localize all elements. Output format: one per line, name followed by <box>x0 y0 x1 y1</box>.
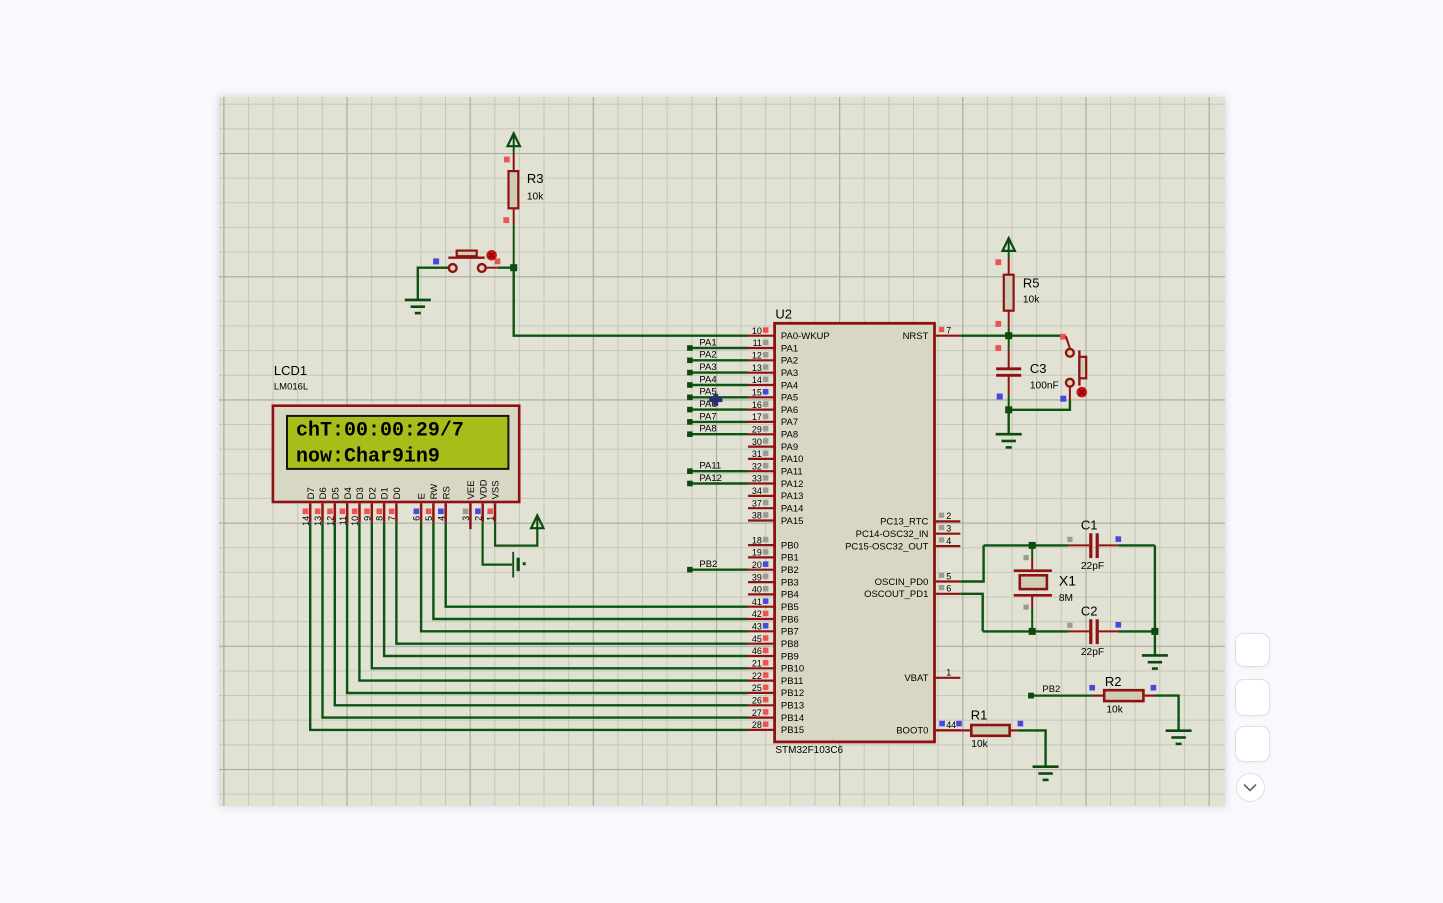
svg-text:C1: C1 <box>1080 517 1097 532</box>
resistor R5 <box>1003 274 1039 310</box>
U2 pin 20 (PB2) <box>748 559 799 575</box>
svg-text:40: 40 <box>751 584 761 594</box>
C3 bottom node junction <box>1005 406 1012 413</box>
U2 pin 11 (PA1) <box>748 338 798 354</box>
svg-text:PA0-WKUP: PA0-WKUP <box>780 331 829 342</box>
crystal top rail wire <box>983 544 1068 546</box>
svg-text:10k: 10k <box>1106 704 1123 715</box>
svg-text:11: 11 <box>752 338 761 348</box>
toolbar button 2 <box>1235 679 1270 716</box>
svg-text:VBAT: VBAT <box>904 673 928 684</box>
svg-text:1: 1 <box>485 515 495 520</box>
svg-text:PA7: PA7 <box>699 411 716 422</box>
U2 pin 13 (PA3) <box>748 362 798 378</box>
svg-text:D3: D3 <box>355 487 366 499</box>
svg-text:OSCOUT_PD1: OSCOUT_PD1 <box>864 589 928 600</box>
svg-text:33: 33 <box>751 473 761 483</box>
resistor R1 <box>970 707 1022 749</box>
svg-text:PA1: PA1 <box>699 337 716 348</box>
svg-text:D2: D2 <box>367 487 378 499</box>
svg-text:PA2: PA2 <box>699 349 716 360</box>
U2 pin 28 (PB15) <box>748 720 804 736</box>
ground G4 (R2) <box>1165 730 1191 743</box>
LCD1 pin 7 (D0) <box>387 487 403 522</box>
button SW2 indicator LED <box>1076 386 1087 397</box>
U2 pin 12 (PA2) <box>748 350 798 366</box>
svg-text:PB14: PB14 <box>780 712 803 723</box>
U2 pin 4 (PC15-OSC32_OUT) <box>845 535 960 551</box>
svg-text:PA3: PA3 <box>780 368 797 379</box>
svg-text:34: 34 <box>751 486 761 496</box>
collapse chevron button <box>1236 773 1265 802</box>
svg-text:RW: RW <box>429 483 440 499</box>
capacitor C3 <box>995 335 1058 409</box>
U2 pin 37 (PA14) <box>748 498 803 514</box>
svg-text:6: 6 <box>411 515 421 520</box>
svg-text:OSCIN_PD0: OSCIN_PD0 <box>874 576 928 587</box>
svg-text:37: 37 <box>751 498 761 508</box>
wire net PA2 <box>687 349 748 362</box>
svg-text:PA12: PA12 <box>699 472 722 483</box>
svg-text:42: 42 <box>751 609 761 619</box>
svg-text:19: 19 <box>751 547 761 557</box>
U2 pin 26 (PB13) <box>748 695 804 711</box>
U2 pin 31 (PA10) <box>748 449 803 465</box>
wire LCD D7 to U2 PB15 <box>310 522 748 730</box>
toolbar button 1 <box>1235 633 1270 667</box>
svg-text:9: 9 <box>362 515 372 520</box>
svg-text:29: 29 <box>751 424 761 434</box>
svg-text:22pF: 22pF <box>1080 560 1103 571</box>
svg-text:PB12: PB12 <box>780 688 803 699</box>
svg-text:E: E <box>416 493 427 499</box>
svg-text:PC15-OSC32_OUT: PC15-OSC32_OUT <box>845 541 928 552</box>
crystal X1 <box>1013 545 1076 631</box>
svg-text:PB5: PB5 <box>780 602 798 613</box>
svg-text:45: 45 <box>751 633 761 643</box>
wire LCD D0 to U2 PB8 <box>396 522 748 643</box>
svg-text:3: 3 <box>461 515 471 520</box>
capacitor C1 <box>1067 517 1121 571</box>
push button SW2 <box>1065 336 1085 386</box>
svg-text:5: 5 <box>946 571 951 581</box>
svg-text:30: 30 <box>751 436 761 446</box>
svg-text:27: 27 <box>751 707 761 717</box>
svg-text:PA11: PA11 <box>780 466 802 477</box>
LCD1 pin 12 (D5) <box>325 487 341 526</box>
toolbar button 3 <box>1235 726 1270 762</box>
svg-text:38: 38 <box>751 510 761 520</box>
ground G3 (crystal) <box>1141 655 1167 668</box>
push button SW1 <box>433 250 500 271</box>
svg-text:22: 22 <box>751 670 761 680</box>
wire net PA3 <box>687 362 748 375</box>
svg-text:BOOT0: BOOT0 <box>896 725 928 736</box>
svg-text:17: 17 <box>751 412 761 422</box>
right rail junction <box>1151 627 1158 634</box>
svg-text:R3: R3 <box>526 170 543 185</box>
svg-text:7: 7 <box>387 515 397 520</box>
svg-text:PA10: PA10 <box>780 454 803 465</box>
power flag VCC (above R5) <box>1002 238 1014 251</box>
svg-text:U2: U2 <box>775 306 792 321</box>
svg-text:PA6: PA6 <box>780 404 797 415</box>
wire U2 NRST to SW2 <box>960 333 1066 339</box>
svg-text:PA4: PA4 <box>780 380 797 391</box>
wire net PA12 <box>687 472 748 485</box>
ground G2 (C3) <box>995 434 1021 447</box>
svg-text:VEE: VEE <box>466 480 477 499</box>
IC U2 reference label <box>775 306 792 321</box>
svg-text:8M: 8M <box>1058 592 1072 603</box>
svg-text:43: 43 <box>751 621 761 631</box>
wire net PA5 <box>687 386 748 399</box>
svg-text:PA3: PA3 <box>699 362 716 373</box>
svg-text:100nF: 100nF <box>1029 380 1058 391</box>
svg-text:12: 12 <box>751 350 761 360</box>
svg-text:41: 41 <box>751 596 761 606</box>
wire net PA1 <box>687 337 748 350</box>
svg-text:PB6: PB6 <box>780 614 798 625</box>
U2 value label STM32F103C6 <box>775 745 843 756</box>
wire net PB2 <box>687 559 748 572</box>
svg-text:PA13: PA13 <box>780 491 803 502</box>
svg-text:PB1: PB1 <box>780 552 798 563</box>
U2 pin 40 (PB4) <box>748 584 799 600</box>
LCD screen <box>287 415 508 468</box>
LCD1 pin 13 (D6) <box>313 487 329 526</box>
U2 pin 29 (PA8) <box>748 424 798 440</box>
svg-text:VSS: VSS <box>490 480 501 499</box>
U2 pin 10 (PA0-WKUP) <box>748 325 830 341</box>
U2 pin 5 (OSCIN_PD0) <box>874 571 960 587</box>
svg-text:PC13_RTC: PC13_RTC <box>880 516 928 527</box>
wire LCD D4 to U2 PB12 <box>347 522 748 693</box>
svg-text:21: 21 <box>751 658 761 668</box>
U2 pin 25 (PB12) <box>748 683 804 699</box>
U2 pin 32 (PA11) <box>748 461 803 477</box>
svg-text:14: 14 <box>751 375 761 385</box>
svg-text:R2: R2 <box>1104 673 1121 688</box>
wire LCD D6 to U2 PB14 <box>322 522 747 717</box>
U2 pin 2 (PC13_RTC) <box>880 511 960 527</box>
resistor R3 <box>508 170 544 207</box>
LCD1 reference label <box>273 362 306 377</box>
U2 pin 38 (PA15) <box>748 510 803 526</box>
svg-text:X1: X1 <box>1058 572 1075 588</box>
svg-text:C2: C2 <box>1080 603 1097 618</box>
svg-text:6: 6 <box>946 583 951 593</box>
U2 pin 22 (PB11) <box>748 670 803 686</box>
svg-text:PA5: PA5 <box>780 392 797 403</box>
svg-text:PB7: PB7 <box>780 626 798 637</box>
svg-text:15: 15 <box>751 387 761 397</box>
capacitor C2 <box>1067 603 1121 657</box>
svg-text:39: 39 <box>751 572 761 582</box>
U2 pin 42 (PB6) <box>748 609 799 625</box>
crystal top junction <box>1028 541 1035 548</box>
LCD text line 2 <box>296 445 440 468</box>
LCD1 value label LM016L <box>273 381 307 392</box>
svg-text:PB2: PB2 <box>780 565 798 576</box>
svg-text:D4: D4 <box>342 487 353 499</box>
svg-text:PC14-OSC32_IN: PC14-OSC32_IN <box>855 529 928 540</box>
wire net PA4 <box>687 374 748 387</box>
LCD1 pin 5 (RW) <box>424 483 440 521</box>
power flag VCC (LCD VSS) <box>531 515 543 528</box>
svg-text:C3: C3 <box>1029 360 1046 375</box>
svg-text:D1: D1 <box>379 487 390 499</box>
wire R3 to node A <box>503 208 513 267</box>
wire SW2 to C3 bottom node <box>1008 386 1069 409</box>
crystal bottom junction <box>1028 627 1035 634</box>
LCD1 pin 10 (D3) <box>350 487 366 526</box>
svg-text:PA15: PA15 <box>780 515 803 526</box>
wire power flag to R3 <box>503 146 513 172</box>
NRST node junction <box>1005 332 1012 339</box>
svg-text:44: 44 <box>946 720 956 730</box>
svg-text:D0: D0 <box>392 487 403 499</box>
U2 pin 44 (BOOT0) <box>896 720 962 737</box>
svg-text:LCD1: LCD1 <box>273 362 306 377</box>
LCD text line 1 <box>296 419 464 442</box>
U2 pin 16 (PA6) <box>748 399 798 415</box>
button SW1 indicator LED <box>486 250 497 261</box>
wire LCD RW to U2 PB6 <box>433 522 748 619</box>
svg-text:PB15: PB15 <box>780 725 803 736</box>
U2 pin 30 (PA9) <box>748 436 798 452</box>
svg-text:PA2: PA2 <box>780 355 797 366</box>
origin marker (blue cross) near PA6 <box>709 393 722 405</box>
U2 pin 21 (PB10) <box>748 658 804 674</box>
svg-text:2: 2 <box>946 511 951 521</box>
wire SW1 to ground <box>417 267 447 299</box>
wire net PA6 <box>687 399 748 412</box>
node A junction (R3/SW1) <box>510 264 517 271</box>
U2 pin 34 (PA13) <box>748 486 803 502</box>
svg-text:PB13: PB13 <box>780 700 803 711</box>
wire C2 to right rail <box>1118 630 1155 632</box>
wire U2 OSCOUT_PD1 to crystal bottom rail <box>960 593 982 631</box>
svg-text:chT:00:00:29/7: chT:00:00:29/7 <box>296 419 464 442</box>
U2 pin 45 (PB8) <box>748 633 799 649</box>
svg-text:STM32F103C6: STM32F103C6 <box>775 745 843 756</box>
svg-text:VDD: VDD <box>478 479 489 499</box>
svg-text:D5: D5 <box>330 487 341 499</box>
U2 pin 15 (PA5) <box>748 387 798 403</box>
svg-text:PB11: PB11 <box>780 675 803 686</box>
wire LCD RS to U2 PB5 <box>445 522 747 606</box>
svg-text:PA11: PA11 <box>699 460 721 471</box>
svg-text:PA8: PA8 <box>780 429 797 440</box>
wire LCD D5 to U2 PB13 <box>334 522 747 705</box>
svg-text:1: 1 <box>946 667 951 677</box>
svg-text:NRST: NRST <box>902 331 928 342</box>
wire LCD D1 to U2 PB9 <box>384 522 748 656</box>
ground G5 (R1) <box>1032 766 1058 779</box>
U2 pin 3 (PC14-OSC32_IN) <box>855 523 960 539</box>
IC U2 STM32F103C6 body <box>774 323 934 742</box>
wire LCD VSS to power flag <box>495 522 537 545</box>
svg-text:PB2: PB2 <box>1042 683 1060 694</box>
ground G1 (SW1) <box>404 299 430 312</box>
wire net PA8 <box>687 423 748 436</box>
svg-text:26: 26 <box>751 695 761 705</box>
LCD display LCD1 body <box>272 405 518 501</box>
wire R1 to ground <box>1017 730 1045 766</box>
svg-text:10k: 10k <box>526 191 543 202</box>
svg-text:10: 10 <box>751 325 761 335</box>
crystal right rail wire <box>1153 545 1155 631</box>
U2 pin 14 (PA4) <box>748 375 798 391</box>
U2 pin 39 (PB3) <box>748 572 799 588</box>
svg-text:7: 7 <box>946 325 951 335</box>
svg-text:13: 13 <box>751 362 761 372</box>
svg-text:PA8: PA8 <box>699 423 716 434</box>
svg-text:16: 16 <box>751 399 761 409</box>
svg-text:28: 28 <box>751 720 761 730</box>
svg-text:46: 46 <box>751 646 761 656</box>
svg-text:PB2: PB2 <box>699 559 717 570</box>
LCD1 pin 4 (RS) <box>436 486 452 522</box>
svg-text:4: 4 <box>436 515 446 520</box>
LCD1 pin 14 (D7) <box>300 487 316 526</box>
wire right rail to ground <box>1153 631 1155 655</box>
U2 pin 41 (PB5) <box>748 596 799 612</box>
U2 pin 33 (PA12) <box>748 473 803 489</box>
svg-text:LM016L: LM016L <box>273 381 307 392</box>
wire R5 to NRST node <box>995 310 1008 335</box>
wire U2 OSCIN_PD0 to crystal top rail <box>960 545 983 581</box>
wire power flag to R5 <box>995 250 1008 275</box>
U2 pin 17 (PA7) <box>748 412 798 428</box>
svg-text:PA7: PA7 <box>780 417 797 428</box>
wire node A to U2 pin 10 (PA0-WKUP net) <box>513 267 747 335</box>
LCD1 pin 9 (D2) <box>362 487 378 522</box>
U2 pin 27 (PB14) <box>748 707 804 723</box>
svg-text:22pF: 22pF <box>1080 646 1103 657</box>
svg-text:now:Char9in9: now:Char9in9 <box>296 445 440 468</box>
svg-text:R5: R5 <box>1022 275 1039 290</box>
U2 pin 43 (PB7) <box>748 621 799 637</box>
svg-text:20: 20 <box>751 559 761 569</box>
svg-text:2: 2 <box>473 515 483 520</box>
svg-text:10k: 10k <box>1022 294 1039 305</box>
wire net PA7 <box>687 411 748 424</box>
svg-text:4: 4 <box>946 535 951 545</box>
LCD1 pin 3 (VEE) <box>461 480 477 529</box>
resistor R2 <box>1092 673 1156 714</box>
svg-text:PB9: PB9 <box>780 651 798 662</box>
svg-text:PA14: PA14 <box>780 503 803 514</box>
svg-text:25: 25 <box>751 683 761 693</box>
U2 pin 1 (VBAT) <box>904 667 960 683</box>
svg-text:PA1: PA1 <box>780 343 797 354</box>
LCD1 pin 1 (VSS) <box>485 480 501 522</box>
LCD1 pin 2 (VDD) <box>473 479 489 522</box>
svg-text:8: 8 <box>374 515 384 520</box>
LCD1 pin 11 (D4) <box>337 487 353 525</box>
svg-text:R1: R1 <box>970 707 987 722</box>
U2 pin 19 (PB1) <box>748 547 799 563</box>
U2 pin 18 (PB0) <box>748 535 799 551</box>
svg-text:PB10: PB10 <box>780 663 803 674</box>
svg-text:PB3: PB3 <box>780 577 798 588</box>
power flag VCC (above R3) <box>507 133 519 146</box>
wire net PB2 to R2 <box>1028 683 1095 698</box>
battery cell (VDD) <box>513 551 525 576</box>
LCD1 pin 8 (D1) <box>374 487 390 522</box>
wire LCD VDD to battery cell <box>482 522 512 564</box>
svg-text:32: 32 <box>751 461 761 471</box>
wire LCD D3 to U2 PB11 <box>359 522 748 680</box>
wire LCD E to U2 PB7 <box>421 522 748 631</box>
svg-text:D7: D7 <box>305 487 316 499</box>
U2 pin 46 (PB9) <box>748 646 799 662</box>
svg-text:PB8: PB8 <box>780 639 798 650</box>
svg-text:PA9: PA9 <box>780 441 797 452</box>
svg-text:PA4: PA4 <box>699 374 716 385</box>
svg-text:10k: 10k <box>971 738 988 749</box>
svg-text:PA12: PA12 <box>780 478 803 489</box>
wire R2 to ground <box>1155 695 1178 730</box>
wire net PA11 <box>687 460 748 473</box>
svg-text:31: 31 <box>751 449 761 459</box>
svg-text:5: 5 <box>424 515 434 520</box>
svg-text:PB4: PB4 <box>780 589 798 600</box>
U2 pin 6 (OSCOUT_PD1) <box>864 583 960 600</box>
svg-text:3: 3 <box>946 523 951 533</box>
crystal bottom rail wire <box>982 630 1068 632</box>
svg-text:18: 18 <box>751 535 761 545</box>
wire U2 BOOT0 to R1 <box>934 729 971 731</box>
LCD1 pin 6 (E) <box>411 493 427 522</box>
wire C3 node to ground <box>1007 409 1009 433</box>
U2 pin 7 (NRST) <box>902 325 960 342</box>
svg-text:RS: RS <box>441 486 452 499</box>
wire C1 to right rail <box>1118 544 1155 546</box>
wire SW1 to node A <box>497 266 513 268</box>
wire LCD D2 to U2 PB10 <box>371 522 747 668</box>
svg-text:D6: D6 <box>318 487 329 499</box>
svg-text:PB0: PB0 <box>780 540 798 551</box>
